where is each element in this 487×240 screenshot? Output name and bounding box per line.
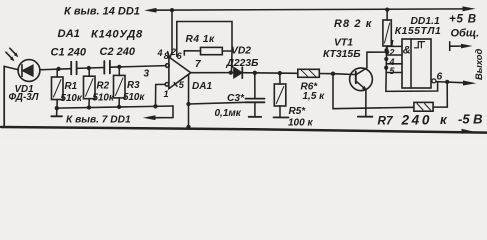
diode VD2 xyxy=(234,67,243,78)
svg-text:1: 1 xyxy=(164,89,169,99)
junction on -5V bus xyxy=(186,125,190,129)
node: rail arrow to K vyv.14 DD1 (left arrowhead) xyxy=(144,8,156,13)
photodiode VD1 xyxy=(18,60,44,82)
wire: left bus vertical xyxy=(3,66,5,127)
net -5V bottom bus xyxy=(1,127,487,133)
pin bubble upper input xyxy=(166,64,170,68)
junction R2 xyxy=(87,66,91,70)
svg-text:VT1: VT1 xyxy=(334,38,353,49)
svg-text:R8 2 к: R8 2 к xyxy=(334,18,373,30)
svg-text:&: & xyxy=(403,45,411,57)
svg-text:К выв. 14 DD1: К выв. 14 DD1 xyxy=(64,5,140,17)
resistor R2 xyxy=(84,68,96,107)
wire: riser to DA1 lower input xyxy=(156,84,166,106)
svg-text:510к: 510к xyxy=(93,93,115,104)
junction R1 xyxy=(56,67,60,71)
svg-text:DA1: DA1 xyxy=(58,28,80,40)
svg-text:100 к: 100 к xyxy=(288,118,313,129)
junction output/R7 xyxy=(445,80,449,84)
junction: rail to R8 xyxy=(385,7,389,11)
wire: DA1 supply drop (pins 4/8) xyxy=(171,10,173,52)
svg-text:4: 4 xyxy=(157,48,163,58)
wire: DD1 output xyxy=(436,82,463,83)
svg-text:R5*: R5* xyxy=(289,106,307,117)
wire: R7 left lead long xyxy=(333,74,414,109)
svg-text:6: 6 xyxy=(437,71,443,82)
svg-text:240: 240 xyxy=(401,112,432,127)
resistor R8 xyxy=(383,10,391,46)
photodiode VD1 light arrows xyxy=(6,48,18,61)
resistor R4 xyxy=(201,47,223,54)
net +5V top rail xyxy=(150,9,466,10)
wire R6 to base node xyxy=(319,73,333,75)
svg-text:3: 3 xyxy=(144,69,150,80)
pin 1 stub xyxy=(387,45,402,47)
junction rail riser to DA1 pin1 input xyxy=(153,104,157,108)
net ground rail (K vyv.7 DD1) xyxy=(57,106,173,108)
transistor VT1 xyxy=(350,68,373,91)
svg-text:2: 2 xyxy=(170,47,176,57)
svg-text:Выход: Выход xyxy=(473,49,484,80)
junction rail R2 xyxy=(87,105,91,109)
svg-text:+5 В: +5 В xyxy=(449,13,477,25)
junction dots on input column xyxy=(384,48,388,52)
wire: Obshch stub with tick and right arrow xyxy=(449,42,451,51)
capacitor C2 xyxy=(104,61,110,74)
pin 2 stub xyxy=(386,54,402,56)
wire: photodiode anode lead xyxy=(4,66,18,69)
svg-text:510к: 510к xyxy=(61,93,83,104)
junction collector/R8/DD1 inputs xyxy=(385,50,389,54)
svg-text:DA1: DA1 xyxy=(192,81,212,92)
feedback loop wire pin2 to output xyxy=(177,22,232,52)
logic gate DD1.1 box xyxy=(402,39,431,88)
junction at C3 ground spur xyxy=(186,102,190,106)
svg-text:С3*: С3* xyxy=(227,93,245,104)
wire: emitter down xyxy=(365,90,367,117)
svg-text:Общ.: Общ. xyxy=(451,28,480,40)
svg-text:-5 В: -5 В xyxy=(458,112,483,127)
output bubble DD1 xyxy=(432,79,436,83)
svg-text:7: 7 xyxy=(195,59,201,70)
hysteresis symbol xyxy=(415,42,425,48)
svg-text:1,5 к: 1,5 к xyxy=(303,91,326,102)
svg-text:К155ТЛ1: К155ТЛ1 xyxy=(395,26,441,37)
svg-text:VD2: VD2 xyxy=(231,45,251,56)
svg-text:С1 240: С1 240 xyxy=(51,46,87,58)
wire: VD2 cathode to R6 xyxy=(242,72,297,75)
svg-text:R7: R7 xyxy=(378,114,395,128)
pin 5 stub xyxy=(386,72,402,74)
pin 6 line xyxy=(183,51,185,55)
wire: R7 right riser xyxy=(433,82,447,107)
pin 5 tick xyxy=(174,83,177,87)
resistor R1 xyxy=(52,69,64,108)
wire: segment C2 to DA1 input pin 3 xyxy=(110,66,166,68)
pin 2 line to feedback loop xyxy=(176,22,178,57)
ground symbol at R1 xyxy=(51,108,62,116)
wire: segment C1 to C2 xyxy=(77,67,105,70)
wire: DD1 input column xyxy=(386,46,438,91)
svg-text:С2 240: С2 240 xyxy=(100,46,136,58)
resistor R7 xyxy=(414,102,433,111)
capacitor C1 xyxy=(71,62,76,75)
node: output arrow xyxy=(463,81,476,86)
svg-text:ФД-3Л: ФД-3Л xyxy=(9,92,39,103)
svg-text:5: 5 xyxy=(179,80,185,90)
svg-text:8: 8 xyxy=(164,51,169,61)
svg-text:К140УД8: К140УД8 xyxy=(91,29,143,41)
svg-text:R1: R1 xyxy=(65,81,78,92)
wire: DA1 output xyxy=(191,72,233,74)
wire R4 left lead xyxy=(184,50,200,52)
op-amp DA1 triangle xyxy=(169,57,191,89)
junction rail R3 xyxy=(117,105,121,109)
pin bubble lower input xyxy=(165,83,169,87)
junction R3 xyxy=(117,65,121,69)
ground symbol at VT1 emitter xyxy=(358,116,373,118)
svg-text:К выв. 7 DD1: К выв. 7 DD1 xyxy=(66,114,131,125)
wire: spur right to C3 bottom plate xyxy=(189,102,246,104)
wire: collector up xyxy=(367,52,387,68)
wire R4 right lead xyxy=(222,50,232,52)
junction rail R1 xyxy=(55,106,59,110)
ground symbol at R5 xyxy=(274,116,289,118)
resistor R3 xyxy=(114,67,126,106)
svg-text:5: 5 xyxy=(390,66,395,76)
wire: main input net segment photodiode to C1 xyxy=(44,68,71,71)
wire R8 to collector node xyxy=(386,46,388,52)
svg-text:R2: R2 xyxy=(97,81,110,92)
junction: output/R4/VD2 xyxy=(229,70,233,74)
svg-text:R4 1к: R4 1к xyxy=(186,34,216,45)
svg-text:R3: R3 xyxy=(127,80,140,91)
junction base/R7 xyxy=(331,72,335,76)
wire: rail hook with left arrow xyxy=(156,106,173,118)
wire base node to VT1 base xyxy=(333,73,356,76)
gate divider xyxy=(410,39,412,88)
svg-text:510к: 510к xyxy=(123,92,145,103)
junction: rail to DA1 supply xyxy=(170,8,174,12)
pin 4 stub xyxy=(386,63,402,65)
resistor R5 xyxy=(274,73,286,117)
svg-text:0,1мк: 0,1мк xyxy=(215,108,242,119)
capacitor C3 xyxy=(246,73,265,117)
resistor R6 xyxy=(298,69,320,77)
node: +5V arrow right xyxy=(463,6,476,11)
node: -5V arrow on bus xyxy=(462,129,476,134)
junction R5 top xyxy=(278,71,282,75)
ground symbol at C3 xyxy=(249,116,262,118)
junction C3 top xyxy=(253,71,257,75)
svg-text:КТ315Б: КТ315Б xyxy=(323,49,361,60)
wire: spur down to -5V bus xyxy=(188,104,190,128)
wire: DA1 lower pin to ground rail xyxy=(188,75,190,104)
wire: loop down to output node xyxy=(231,51,234,73)
